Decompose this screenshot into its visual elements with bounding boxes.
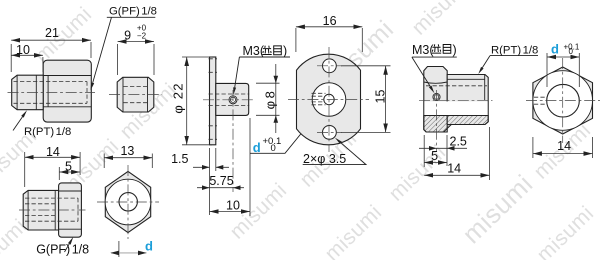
- svg-text:M3(: M3(: [243, 44, 265, 58]
- svg-text:10: 10: [226, 198, 240, 212]
- svg-text:G(PF)1/8: G(PF)1/8: [109, 6, 157, 18]
- svg-text:φ8: φ8: [263, 89, 278, 110]
- svg-text:R(PT)1/8: R(PT)1/8: [24, 126, 71, 138]
- svg-text:16: 16: [323, 14, 337, 28]
- svg-text:9: 9: [124, 29, 131, 43]
- svg-text:d: d: [551, 42, 559, 57]
- svg-text:5: 5: [431, 149, 438, 163]
- svg-text:−2: −2: [137, 31, 147, 40]
- svg-text:0: 0: [271, 143, 276, 154]
- svg-text:5.75: 5.75: [209, 174, 233, 188]
- svg-text:R(PT)1/8: R(PT)1/8: [491, 45, 538, 57]
- svg-text:1.5: 1.5: [171, 152, 188, 166]
- svg-text:15: 15: [374, 90, 388, 104]
- svg-text:): ): [283, 44, 287, 58]
- svg-text:0: 0: [569, 47, 574, 56]
- svg-text:14: 14: [447, 162, 461, 176]
- svg-text:14: 14: [557, 139, 571, 153]
- svg-text:φ 22: φ 22: [171, 82, 186, 113]
- svg-text:5: 5: [65, 160, 72, 174]
- svg-text:2.5: 2.5: [450, 135, 467, 149]
- svg-text:14: 14: [46, 145, 60, 159]
- svg-text:13: 13: [120, 144, 134, 158]
- svg-text:): ): [453, 43, 457, 57]
- svg-text:M3(: M3(: [412, 43, 434, 57]
- svg-text:10: 10: [16, 43, 30, 57]
- svg-text:d: d: [145, 239, 153, 254]
- svg-text:21: 21: [45, 26, 59, 40]
- svg-text:2×φ 3.5: 2×φ 3.5: [303, 152, 346, 166]
- svg-text:d: d: [253, 140, 261, 155]
- svg-text:G(PF)1/8: G(PF)1/8: [36, 243, 89, 257]
